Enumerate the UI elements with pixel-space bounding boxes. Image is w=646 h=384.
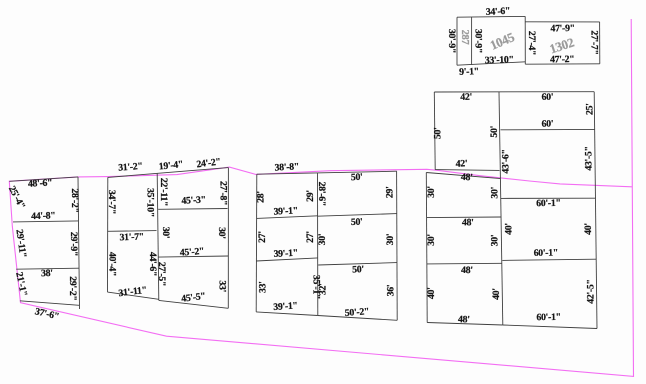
svg-text:30': 30' (317, 234, 328, 246)
svg-text:33'-10": 33'-10" (485, 54, 514, 66)
g2 bottom right (159, 300, 229, 308)
p1045 top edge (457, 15, 525, 18)
svg-text:29': 29' (305, 190, 316, 202)
svg-text:287: 287 (459, 30, 470, 45)
g3 bottom left (256, 312, 318, 316)
svg-text:60'-1": 60'-1" (536, 198, 561, 209)
svg-text:60'-1": 60'-1" (536, 312, 561, 323)
svg-text:1045: 1045 (488, 29, 517, 53)
svg-text:33': 33' (217, 280, 228, 292)
svg-text:42': 42' (460, 92, 472, 103)
g4 48 top line (426, 173, 500, 179)
svg-text:38'-8": 38'-8" (274, 161, 299, 173)
svg-text:38': 38' (41, 268, 53, 279)
svg-text:30'-9": 30'-9" (446, 29, 457, 53)
svg-text:40': 40' (503, 223, 514, 235)
svg-text:60': 60' (541, 118, 553, 129)
svg-text:33': 33' (257, 281, 268, 293)
p1045 left edge (456, 17, 458, 65)
svg-text:19'-4": 19'-4" (158, 159, 183, 172)
g3 div 39-1 a (256, 216, 317, 219)
svg-text:40': 40' (426, 287, 437, 299)
g3 top edge (257, 171, 397, 174)
svg-text:25': 25' (584, 103, 595, 115)
svg-text:40': 40' (491, 288, 502, 300)
svg-text:43'-5": 43'-5" (583, 146, 594, 170)
g4 42 bottom (435, 169, 499, 172)
g4 lc div1 (427, 216, 501, 219)
svg-text:40'-4": 40'-4" (107, 252, 118, 276)
svg-text:34'-6": 34'-6" (486, 6, 511, 18)
svg-text:35'-10": 35'-10" (145, 188, 156, 217)
g4 rc div1 (501, 197, 596, 199)
svg-text:32': 32' (318, 283, 329, 295)
svg-text:25'-4": 25'-4" (6, 184, 27, 211)
svg-text:28'-2": 28'-2" (69, 188, 80, 212)
svg-text:36': 36' (386, 285, 397, 297)
g3 div 50 a (318, 214, 397, 217)
svg-text:37'-6": 37'-6" (34, 306, 60, 322)
g2 mid vertical (157, 173, 159, 300)
g3 div 50 b (318, 263, 397, 265)
g3 left edge (255, 174, 258, 312)
p1302 right edge (599, 22, 601, 64)
svg-text:43'-6": 43'-6" (501, 149, 512, 173)
svg-text:31'-7": 31'-7" (119, 231, 144, 243)
svg-text:50': 50' (351, 172, 363, 183)
svg-text:39'-1": 39'-1" (273, 248, 298, 260)
svg-text:21'-1": 21'-1" (13, 271, 29, 297)
svg-text:42': 42' (455, 158, 467, 169)
svg-text:34'-7": 34'-7" (106, 190, 117, 214)
svg-text:50'-2": 50'-2" (344, 306, 369, 319)
g4 div 60 (501, 128, 595, 130)
svg-text:50': 50' (352, 264, 364, 275)
g3 mid vertical (317, 173, 319, 316)
g2 right edge (227, 168, 229, 309)
svg-text:44'-8": 44'-8" (31, 210, 56, 222)
svg-text:30': 30' (489, 187, 500, 199)
svg-text:31'-2": 31'-2" (118, 161, 143, 174)
g4 lc div2 (427, 262, 502, 265)
g4 rc div2 (502, 259, 596, 260)
svg-text:47'-2": 47'-2" (550, 54, 575, 65)
svg-text:60'-1": 60'-1" (534, 247, 559, 258)
g4 grid left (433, 92, 436, 170)
svg-text:29'-9": 29'-9" (68, 232, 79, 256)
g4 grid top (434, 91, 594, 93)
g2 div 45-2 (158, 256, 228, 257)
svg-text:50': 50' (432, 127, 443, 139)
g4 lc bottom (427, 323, 503, 326)
svg-text:27'-7": 27'-7" (588, 30, 599, 54)
svg-text:28': 28' (255, 191, 266, 203)
svg-text:28'-6": 28'-6" (316, 182, 327, 206)
svg-text:42'-5": 42'-5" (585, 279, 596, 303)
svg-text:30': 30' (489, 235, 500, 247)
svg-text:30': 30' (426, 234, 437, 246)
g2 div 45-3 (158, 208, 227, 211)
svg-text:27'-5": 27'-5" (156, 262, 167, 286)
g4 left edge (425, 173, 428, 323)
svg-text:48': 48' (461, 172, 473, 184)
svg-text:29'-2": 29'-2" (67, 276, 78, 300)
svg-text:27'-8": 27'-8" (217, 181, 228, 205)
svg-text:39'-1": 39'-1" (273, 300, 298, 313)
g1 divider 38 (16, 268, 79, 269)
p1045 right edge (524, 16, 526, 64)
svg-text:45'-2": 45'-2" (179, 246, 204, 259)
svg-text:40': 40' (583, 223, 594, 235)
svg-text:48': 48' (461, 265, 473, 276)
g4 right edge (594, 92, 597, 329)
svg-text:60': 60' (541, 92, 553, 103)
svg-text:9'-1": 9'-1" (459, 66, 479, 78)
svg-text:30': 30' (160, 227, 171, 239)
svg-text:48': 48' (458, 314, 470, 325)
g2 bottom left (108, 292, 159, 299)
svg-text:27'-4": 27'-4" (526, 31, 537, 55)
svg-text:22'-11": 22'-11" (158, 178, 169, 206)
p1302 bottom edge (525, 63, 600, 65)
svg-text:48': 48' (462, 217, 474, 228)
svg-text:29': 29' (385, 186, 396, 198)
g1 divider 44-8 (13, 221, 78, 222)
svg-text:50': 50' (489, 126, 500, 138)
svg-text:30': 30' (426, 186, 437, 198)
svg-text:45'-3": 45'-3" (181, 194, 206, 206)
svg-text:39'-1": 39'-1" (273, 205, 298, 217)
p1045 inner vertical (471, 17, 473, 65)
svg-text:30'-9": 30'-9" (472, 29, 483, 53)
g2 left edge (107, 177, 109, 292)
svg-text:27': 27' (305, 231, 316, 243)
g1 right edge (78, 177, 80, 309)
g3 div 39-1 b (256, 258, 317, 261)
g4 rc bottom (503, 325, 597, 329)
g4 mid vertical (499, 92, 503, 325)
g3 bottom right (318, 316, 397, 321)
g3 right edge (396, 171, 399, 320)
svg-text:50': 50' (351, 217, 363, 228)
p1302 top edge (525, 21, 599, 23)
g2 div 31-7 (107, 230, 156, 233)
svg-text:30': 30' (385, 234, 396, 246)
svg-text:48'-6": 48'-6" (28, 177, 53, 189)
g1 bottom edge (20, 301, 79, 306)
svg-text:27': 27' (257, 231, 268, 243)
svg-text:45'-5": 45'-5" (181, 291, 206, 305)
svg-text:30': 30' (216, 227, 227, 239)
p1045 bottom edge (457, 62, 525, 65)
g1 top edge (9, 177, 78, 181)
g2 top edge (108, 168, 229, 178)
svg-text:47'-9": 47'-9" (550, 23, 575, 34)
